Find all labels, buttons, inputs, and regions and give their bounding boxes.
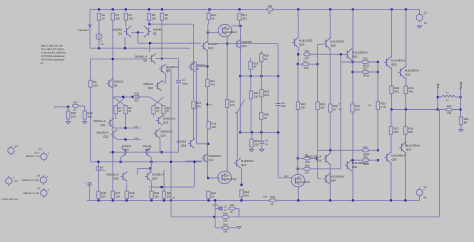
- wire y43.6 left: [208, 43, 227, 45]
- oval transistor Q27 (driver P): [291, 174, 310, 186]
- node R4 bottom: [148, 23, 150, 25]
- svg-text:1K: 1K: [253, 66, 256, 69]
- wire tail jog down: [149, 43, 151, 52]
- resistor R21 (x251): [249, 91, 259, 99]
- node x150.2 y168.5: [149, 167, 151, 169]
- oval transistor Q19 (top VAS): [218, 24, 237, 36]
- node top-rail junction x330.2: [329, 8, 331, 10]
- wire Q22 to R18: [241, 168, 243, 185]
- node x317.5 y64.2: [316, 63, 318, 65]
- svg-text:220: 220: [301, 106, 306, 109]
- svg-text:1K: 1K: [211, 196, 214, 199]
- node in x68.2: [67, 106, 69, 108]
- wire output node y109.5: [391, 109, 437, 111]
- wire x298 lower: [297, 109, 299, 158]
- node top-rail junction x239.5: [238, 8, 240, 10]
- resistor R29 (x405.7): [404, 86, 414, 94]
- svg-text:Q30: Q30: [391, 62, 397, 66]
- node y128 x125.5: [124, 127, 126, 129]
- svg-text:0R1: 0R1: [394, 90, 399, 93]
- transistor Q18: [176, 139, 195, 149]
- wire x340.8 long: [340, 54, 342, 169]
- node top-rail junction x352.9: [352, 8, 354, 10]
- ground fb: [237, 227, 242, 229]
- node x215.2 bottom rail: [214, 199, 216, 201]
- wire LTP emitters: [131, 32, 144, 34]
- voltage source V3: [6, 176, 15, 186]
- wire R20 top stub: [260, 51, 262, 54]
- transistor Q12: [96, 130, 117, 140]
- wire x196.6 long vertical: [196, 62, 198, 144]
- transistor Q36 (pre-driver bottom): [323, 173, 344, 185]
- transistor Q5: [135, 54, 156, 64]
- svg-text:Q36: Q36: [330, 179, 336, 183]
- resistor R51 (x352.9): [351, 104, 361, 112]
- wire y43.2 left part: [150, 42, 190, 44]
- transistor Q7 (VAS input): [188, 62, 205, 72]
- svg-text:SINE(0 1 1k): SINE(0 1 1k): [26, 155, 40, 158]
- svg-text:R32: R32: [363, 156, 368, 159]
- wire y187.1: [149, 186, 195, 188]
- net label marker b1: [206, 103, 209, 106]
- node out x437.8 y97.1: [437, 96, 439, 98]
- svg-text:-: -: [47, 181, 48, 184]
- wire y43.6 bus: [227, 43, 278, 45]
- wire C3 down: [261, 143, 263, 149]
- svg-text:150: 150: [129, 196, 134, 199]
- svg-text:R31: R31: [363, 146, 368, 149]
- wire y178 to oval Q19: [208, 177, 220, 179]
- svg-text:10R: 10R: [447, 112, 452, 115]
- wire x240.3 to y132.4: [239, 76, 241, 132]
- svg-text:Q27: Q27: [298, 178, 303, 181]
- capacitor C7: [1, 45, 469, 234]
- flag symbol left end of bottom rail: [88, 182, 91, 185]
- wire x298.2 from rail: [297, 9, 299, 36]
- svg-text:R13: R13: [268, 5, 273, 8]
- wire y54.3 right: [311, 53, 319, 55]
- resistor R49 (input gnd): [67, 111, 77, 119]
- wire x317.5 lower: [317, 109, 319, 150]
- svg-text:22K: 22K: [223, 220, 228, 223]
- node y152.2 x161.8: [161, 151, 163, 153]
- transistor Q17: [201, 153, 221, 163]
- wire to R48: [84, 106, 86, 111]
- svg-text:.OPTIONS gminstep: .OPTIONS gminstep: [41, 58, 65, 61]
- resistor R8 (mirror A): [124, 106, 132, 114]
- svg-text:vref: vref: [263, 196, 267, 199]
- current source I2: [96, 166, 101, 171]
- node y152.2 x112.8: [112, 151, 114, 153]
- wire x317.5 upper: [317, 64, 319, 102]
- svg-text:0R1: 0R1: [408, 90, 413, 93]
- resistor R26 (series y62): [362, 58, 370, 68]
- svg-text:68: 68: [165, 18, 168, 21]
- wire R1 to I1: [98, 20, 100, 33]
- node x352.6 y72: [352, 71, 354, 73]
- resistor R47 (series input): [72, 101, 79, 111]
- wire y64.2: [298, 63, 318, 65]
- wire R7 down: [115, 114, 117, 119]
- node y161.8 x151.4: [150, 161, 152, 163]
- wire to C7: [215, 208, 220, 210]
- wire x178.5 upper: [178, 59, 180, 81]
- node bottom-rail junction x208.5: [207, 199, 209, 201]
- wire mirror A cross: [113, 97, 126, 106]
- wire y72: [353, 71, 378, 73]
- node x297.8 y168.8: [297, 168, 299, 170]
- node x377.9 y160.2: [377, 159, 379, 161]
- node x460.5 y109.5: [459, 108, 461, 110]
- node x377.9 y72: [377, 71, 379, 73]
- wire y161.8 long: [91, 161, 203, 163]
- svg-text:R44: R44: [223, 223, 228, 226]
- wire y54.3 to Q29: [318, 53, 345, 55]
- svg-text:8R: 8R: [464, 121, 467, 124]
- wire flag to rail: [89, 186, 91, 201]
- wire x227.2 lower: [226, 108, 228, 172]
- svg-text:Q40: Q40: [152, 176, 158, 180]
- svg-text:Q19: Q19: [225, 28, 230, 31]
- resistor R56 (x251.5 low): [250, 139, 260, 147]
- wire R21 down to y132.4: [250, 99, 252, 132]
- node top-rail junction x298.2: [297, 8, 299, 10]
- node y76 x250.8: [250, 75, 252, 77]
- node bottom-rail junction x330.2: [329, 199, 331, 201]
- resistor R39 (bottom x151.5): [150, 191, 160, 198]
- spice directives text block: [41, 45, 67, 65]
- wire y62: [341, 61, 378, 63]
- transistor Q22: [234, 158, 254, 168]
- transistor Q28 (pre-driver top): [323, 37, 344, 49]
- node x278 y132.4: [277, 131, 279, 133]
- svg-text:47: 47: [128, 110, 131, 113]
- svg-text:4.7K: 4.7K: [381, 106, 387, 109]
- node x207.8 y32.6: [207, 32, 209, 34]
- node mirror A: [122, 96, 124, 98]
- wire to R21: [250, 76, 252, 91]
- wire x330.2 mid: [329, 112, 331, 150]
- wire y24.2 long: [150, 23, 194, 25]
- node bottom-rail junction x391: [390, 199, 392, 201]
- wire Q6 emitter down: [165, 74, 167, 78]
- resistor R30 (x377.9): [376, 102, 386, 110]
- svg-text:R26: R26: [363, 58, 368, 61]
- wire Q6 emitter to x171: [166, 68, 171, 70]
- wire Q39 to R39: [151, 183, 153, 192]
- wire x377.9 lower: [377, 110, 379, 151]
- resistor R20 (x261.4): [260, 54, 270, 63]
- wire x240.5 down: [240, 26, 242, 76]
- wire feedback vertical x90.5: [90, 87, 92, 162]
- wire R44 right: [229, 227, 237, 229]
- node y76 x261.4: [260, 75, 262, 77]
- wire R54-R55: [260, 97, 262, 113]
- wire x98.4 upper: [97, 162, 99, 167]
- wire R19 down: [250, 69, 252, 76]
- svg-text:Q17: Q17: [209, 158, 215, 162]
- node x377.9 y150.3: [377, 149, 379, 151]
- node y132 x251.9: [251, 131, 253, 133]
- node bottom-rail junction x151.5: [150, 199, 152, 201]
- wire I2 to R36: [97, 171, 99, 191]
- wire R4 down: [148, 20, 150, 24]
- capacitor C7 (series horizontal): [219, 206, 221, 210]
- node mirror A2: [132, 96, 134, 98]
- wire x330.2 to Q34: [329, 150, 331, 154]
- svg-text:0R1: 0R1: [394, 131, 399, 134]
- wire LTP base drop x125: [124, 37, 126, 48]
- wire x330.2 upper: [329, 49, 331, 105]
- wire to R49: [67, 107, 69, 111]
- node x297.8 y64.2: [297, 63, 299, 65]
- svg-text:-: -: [15, 152, 16, 155]
- wire y158.4: [298, 157, 317, 159]
- svg-text:Q13: Q13: [163, 120, 169, 124]
- wire x352.9 full vertical: [352, 9, 354, 200]
- svg-text:Q9: Q9: [114, 83, 118, 87]
- resistor R19 (x250.5): [249, 61, 259, 69]
- svg-text:10K: 10K: [71, 115, 76, 118]
- wire R47 right: [79, 105, 85, 107]
- node bottom-rail junction x126.7: [126, 199, 128, 201]
- wire x207.4 upper: [206, 51, 208, 79]
- wire load down: [460, 124, 462, 129]
- transistor Q9 (mirror A): [106, 79, 123, 89]
- svg-text:150: 150: [116, 18, 121, 21]
- wire y152.2 ext: [162, 151, 179, 153]
- ground input 2: [82, 122, 87, 124]
- wire bridge to Q40: [149, 169, 151, 173]
- resistor R54 (x261.4 mid): [260, 90, 270, 97]
- svg-text:1m: 1m: [339, 108, 342, 111]
- node top-rail junction x149: [148, 8, 150, 10]
- wire V+ top rail: [90, 8, 420, 10]
- wire V- bottom rail: [87, 199, 420, 201]
- resistor R9 (mirror B): [152, 106, 160, 114]
- resistor R43 (fb series): [222, 212, 229, 222]
- wire R49 to gnd: [67, 119, 69, 122]
- transistor Q38: [106, 172, 127, 182]
- svg-text:1K: 1K: [102, 18, 105, 21]
- wire Q36 base stub: [318, 178, 322, 180]
- wire to R44: [215, 227, 222, 229]
- svg-text:R27: R27: [363, 68, 368, 71]
- node x241.5 y184.8: [240, 184, 242, 186]
- wire x239 down: [238, 209, 240, 217]
- svg-text:1K: 1K: [264, 117, 267, 120]
- svg-text:Q11: Q11: [100, 123, 106, 127]
- wire R33 down: [390, 134, 392, 153]
- wire y59 to Q5 base: [91, 58, 148, 60]
- svg-text:0R1: 0R1: [408, 131, 413, 134]
- wire R29 to out node: [405, 94, 407, 110]
- wire y66.4: [196, 65, 208, 67]
- wire mirror B cross: [149, 97, 163, 106]
- wire feedback return y216.9: [171, 216, 440, 218]
- wire x90.5 upper: [90, 59, 92, 80]
- svg-text:R25: R25: [305, 164, 310, 167]
- node y161.8 x98.4: [97, 161, 99, 163]
- resistor R10 (mirror B): [162, 106, 172, 114]
- svg-text:220: 220: [305, 172, 310, 175]
- wire x297.8 to Q27: [297, 158, 299, 174]
- node bottom-rail junction x352.9: [352, 199, 354, 201]
- wire y43.2 to Q15 base: [190, 42, 201, 44]
- wire Q27 to bottom rail: [297, 187, 299, 201]
- wire Q31 emitter down: [405, 78, 407, 87]
- voltage source V4 (V+): [416, 13, 425, 23]
- wire Q10 collector link: [162, 80, 164, 83]
- svg-text:Q27: Q27: [284, 175, 289, 178]
- svg-text:150: 150: [101, 196, 106, 199]
- resistor R17 (rail x239.5): [238, 13, 248, 20]
- wire x317.5 to Q36 base: [317, 158, 319, 178]
- wire tail jog right: [138, 42, 150, 44]
- node x240.5 y25.9: [239, 25, 241, 27]
- transistor Q29 (driver top): [345, 48, 368, 60]
- node bottom-rail junction x112.8: [112, 199, 114, 201]
- svg-text:Q26: Q26: [299, 42, 305, 46]
- svg-text:100n: 100n: [303, 67, 309, 70]
- resistor R25 (series y168.8): [304, 164, 311, 174]
- svg-text:100: 100: [211, 126, 216, 129]
- svg-text:Q22: Q22: [241, 163, 247, 167]
- resistor R38 (bottom x126.7): [125, 191, 135, 198]
- node x171 y161.8: [170, 161, 172, 163]
- resistor R46 (load): [459, 117, 469, 125]
- transistor Q32 (output P2): [399, 141, 420, 153]
- transistor Q37 (bottom pair left): [121, 147, 128, 157]
- svg-text:Q1: Q1: [118, 31, 122, 35]
- svg-text:Q32: Q32: [406, 147, 412, 151]
- wire x317.5 up to Q28 base: [317, 45, 319, 65]
- resistor R35 (series, bottom rail): [269, 196, 276, 206]
- wire y168.8: [298, 168, 341, 170]
- svg-text:100p: 100p: [182, 82, 188, 85]
- svg-text:Q39: Q39: [145, 148, 150, 151]
- transistor Q31 (output N2): [398, 66, 419, 78]
- node y54.3 x340.8: [340, 53, 342, 55]
- wire out to R34: [404, 110, 406, 127]
- node bottom-rail junction x164: [163, 199, 165, 201]
- resistor R33 (x391): [389, 127, 399, 135]
- wire y58.5: [155, 58, 179, 60]
- svg-text:150: 150: [116, 196, 121, 199]
- ground load: [459, 130, 464, 132]
- resistor R16 (x227.2): [226, 100, 236, 108]
- node x316.7 y158.4: [316, 157, 318, 159]
- wire Q19 to x240.5: [232, 25, 241, 27]
- transistor Q34 (driver bottom): [305, 153, 330, 165]
- svg-text:R53: R53: [134, 92, 139, 95]
- node x377.9 y62: [377, 61, 379, 63]
- transistor Q15: [201, 41, 218, 51]
- node top-rail junction x405.9: [405, 8, 407, 10]
- node x208 y143.8: [207, 143, 209, 145]
- node bottom-rail junction x405.4: [404, 199, 406, 201]
- wire x207.8 collector column: [207, 24, 209, 43]
- wire x193.5 full upper: [193, 24, 195, 100]
- wire x391.6 from rail: [391, 9, 393, 57]
- wire x207.4 lower: [206, 129, 208, 178]
- wire Q33 collector to rail: [390, 163, 392, 201]
- capacitor C4 (series y64.2): [302, 60, 309, 70]
- wire x237.3 down: [236, 113, 238, 159]
- wire Q30 emitter down: [391, 68, 393, 87]
- wire x215.2 fb network: [214, 200, 216, 227]
- svg-text:Q12: Q12: [103, 134, 109, 138]
- oval transistor Q20 (bottom VAS): [218, 171, 237, 183]
- resistor R41 (bottom x208.5): [207, 191, 217, 198]
- node x240.3 y132.4: [239, 131, 241, 133]
- transistor Q14: [153, 129, 173, 139]
- resistor R3 (rail, x125.8): [124, 13, 133, 20]
- voltage source V6: [40, 175, 49, 185]
- svg-text:150: 150: [129, 18, 134, 21]
- wire x194.4: [193, 162, 195, 187]
- svg-text:47: 47: [156, 110, 159, 113]
- node y43 x150: [149, 42, 151, 44]
- svg-text:R35: R35: [270, 196, 275, 199]
- wire to L1: [438, 96, 442, 98]
- resistor R13 (series, top rail): [267, 5, 274, 15]
- current source arrow on left drop: [89, 24, 92, 28]
- wire R17 down: [239, 20, 241, 26]
- wire to R56: [251, 132, 253, 139]
- resistor R12 (x207.4): [206, 79, 216, 87]
- svg-text:AC 1: AC 1: [34, 151, 40, 154]
- resistor R23 (x298): [296, 102, 306, 110]
- wire tail bus y48: [90, 47, 190, 49]
- transistor Q30 (output N1): [384, 56, 405, 68]
- node x112.8 y59: [112, 58, 114, 60]
- svg-text:100: 100: [244, 194, 249, 197]
- svg-text:uF: uF: [41, 62, 44, 65]
- wire y109.5 to load: [438, 109, 461, 111]
- transistor Q39 (bottom pair right): [144, 147, 151, 157]
- svg-text:1m: 1m: [101, 169, 104, 172]
- wire x317.5 to y158.4: [317, 150, 319, 158]
- node x240.3 y76.1: [239, 75, 241, 77]
- transistor Q6: [159, 64, 179, 74]
- svg-text:in: in: [54, 105, 57, 109]
- transistor Q1 (LTP left): [112, 26, 131, 38]
- svg-text:Q33: Q33: [391, 157, 397, 161]
- svg-text:150: 150: [154, 196, 159, 199]
- svg-text:MJE15033: MJE15033: [298, 181, 311, 184]
- wire y152.2: [109, 151, 162, 153]
- resistor R28 (x391.5): [390, 86, 400, 94]
- wire R8 down: [125, 114, 127, 128]
- node y161.8 x120.6: [120, 161, 122, 163]
- wire R56 to gnd: [251, 147, 253, 149]
- node out x391.4: [390, 108, 392, 110]
- wire R48 to gnd: [84, 119, 86, 122]
- node x194.4 y161.8: [193, 161, 195, 163]
- transistor Q35: [345, 159, 368, 171]
- svg-text:Q31: Q31: [405, 72, 411, 76]
- svg-text:SpiceMod: SpiceMod: [78, 29, 89, 32]
- wire R55 down: [260, 119, 262, 132]
- node x352.6 y160.2: [352, 159, 354, 161]
- svg-text:22K: 22K: [223, 231, 228, 234]
- wire y177.8 right: [278, 177, 291, 179]
- wire R28 to out node: [391, 94, 393, 110]
- wire x405.9 from rail: [405, 9, 407, 67]
- wire in right: [58, 106, 69, 108]
- wire y96.9 to mirror B: [135, 96, 149, 98]
